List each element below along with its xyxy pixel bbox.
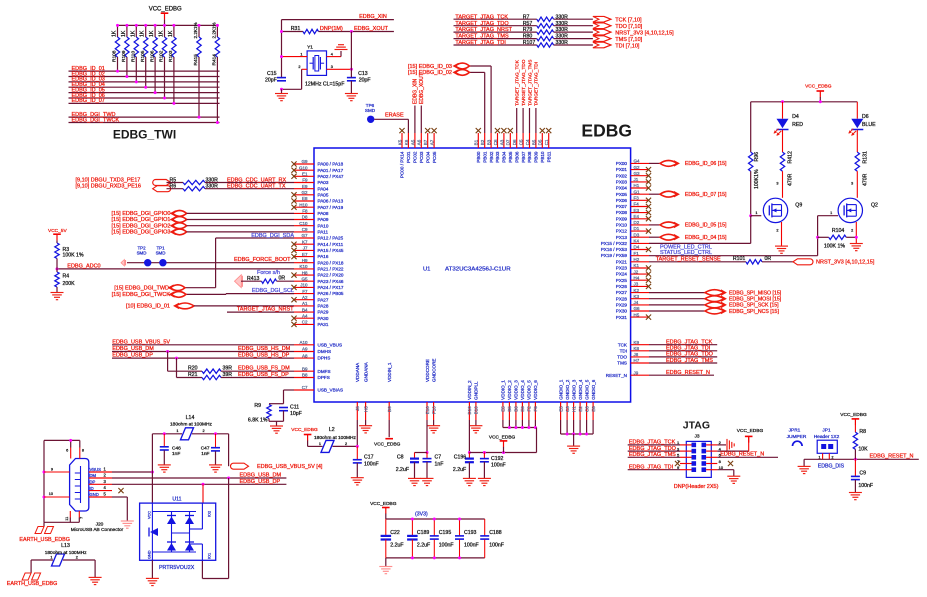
svg-text:PX02: PX02 — [616, 173, 628, 178]
svg-text:EDBG_JTAG_TMS: EDBG_JTAG_TMS — [629, 452, 676, 458]
svg-text:VDDIO_5: VDDIO_5 — [527, 380, 532, 400]
svg-text:0R: 0R — [765, 256, 772, 262]
svg-text:[10] EDBG_ID_01: [10] EDBG_ID_01 — [126, 304, 170, 310]
svg-text:TARGET_JTAG_TMS: TARGET_JTAG_TMS — [527, 60, 533, 106]
svg-text:EDBG_JTAG_TDO: EDBG_JTAG_TDO — [629, 446, 677, 452]
svg-text:NRST_3V3 [4,10,12,15]: NRST_3V3 [4,10,12,15] — [816, 260, 875, 266]
svg-text:C9: C9 — [302, 227, 308, 232]
svg-text:PX31: PX31 — [616, 315, 628, 320]
svg-text:H10: H10 — [299, 202, 308, 207]
svg-text:J8: J8 — [634, 352, 639, 357]
svg-text:PX10: PX10 — [616, 223, 628, 228]
svg-text:EDBG_ID_04 [15]: EDBG_ID_04 [15] — [685, 235, 727, 241]
svg-text:C189: C189 — [417, 530, 430, 536]
svg-text:USB_VBUS: USB_VBUS — [318, 342, 343, 347]
svg-text:E8: E8 — [302, 196, 308, 201]
svg-text:PX09: PX09 — [616, 216, 628, 221]
svg-text:VCC_EDBG: VCC_EDBG — [737, 428, 764, 434]
svg-text:A7: A7 — [430, 139, 435, 145]
svg-text:[15] EDBG_DGI_GPIO2: [15] EDBG_DGI_GPIO2 — [112, 223, 171, 229]
svg-text:PX13: PX13 — [616, 235, 628, 240]
svg-text:39R: 39R — [223, 366, 233, 372]
svg-text:TARGET_JTAG_TCK: TARGET_JTAG_TCK — [515, 59, 521, 106]
svg-text:1: 1 — [50, 555, 52, 559]
svg-text:330R: 330R — [556, 34, 569, 40]
svg-text:F9: F9 — [302, 178, 308, 183]
svg-text:B2: B2 — [480, 139, 485, 145]
svg-text:C9: C9 — [859, 470, 866, 476]
svg-text:F4: F4 — [634, 202, 640, 207]
svg-text:TP2: TP2 — [137, 245, 146, 250]
svg-text:DMHS: DMHS — [318, 349, 332, 354]
svg-text:EDBG_USB_VBUS_5V [4]: EDBG_USB_VBUS_5V [4] — [257, 464, 323, 470]
svg-text:JTAG: JTAG — [683, 419, 710, 431]
svg-text:K3: K3 — [634, 294, 640, 299]
svg-text:TP6: TP6 — [366, 103, 375, 108]
svg-text:E6: E6 — [591, 406, 596, 412]
svg-text:VCC_EDBG: VCC_EDBG — [840, 412, 867, 418]
svg-text:J1: J1 — [634, 177, 639, 182]
svg-text:PX29: PX29 — [616, 303, 628, 308]
svg-text:2.2K1%: 2.2K1% — [193, 22, 198, 38]
svg-text:12MHz CL=15pF: 12MHz CL=15pF — [305, 82, 344, 88]
svg-text:E5: E5 — [501, 406, 506, 412]
svg-text:180ohm at 100MHz: 180ohm at 100MHz — [314, 435, 356, 441]
svg-text:11: 11 — [65, 517, 69, 521]
svg-text:[15] EDBG_DGI_GPIO0: [15] EDBG_DGI_GPIO0 — [112, 211, 171, 217]
svg-text:PA27: PA27 — [318, 297, 329, 302]
svg-text:PA20 / PX18: PA20 / PX18 — [318, 260, 344, 265]
svg-text:B9: B9 — [302, 366, 308, 371]
svg-text:EDBG_XOUT: EDBG_XOUT — [354, 26, 389, 32]
svg-text:DPHS: DPHS — [318, 356, 331, 361]
svg-text:PC05: PC05 — [432, 151, 437, 163]
svg-text:VCC_5V: VCC_5V — [48, 228, 67, 234]
svg-text:B1: B1 — [474, 139, 479, 145]
svg-text:2.2uF: 2.2uF — [453, 467, 466, 473]
svg-text:R4: R4 — [63, 274, 70, 280]
svg-text:F2: F2 — [527, 406, 532, 412]
svg-text:GNDANA: GNDANA — [363, 361, 368, 382]
svg-text:EDBG: EDBG — [581, 121, 632, 141]
svg-text:0R: 0R — [279, 275, 286, 281]
svg-text:EDBG_XOUT: EDBG_XOUT — [419, 73, 425, 104]
svg-text:JPR1: JPR1 — [789, 428, 801, 434]
svg-text:K2: K2 — [634, 288, 640, 293]
svg-text:PA03: PA03 — [318, 180, 329, 185]
svg-text:G10: G10 — [299, 165, 308, 170]
svg-text:PX03: PX03 — [616, 180, 628, 185]
svg-text:20pF: 20pF — [359, 78, 371, 84]
svg-text:100K 1%: 100K 1% — [63, 253, 84, 259]
svg-text:R131: R131 — [862, 151, 868, 164]
svg-text:C5: C5 — [519, 139, 524, 145]
svg-text:C188: C188 — [489, 530, 502, 536]
svg-text:100nF: 100nF — [858, 483, 873, 489]
svg-text:J4: J4 — [634, 300, 639, 305]
svg-text:R96: R96 — [754, 152, 760, 162]
svg-text:PX15 / PX32: PX15 / PX32 — [601, 241, 628, 246]
svg-text:330R: 330R — [206, 184, 219, 190]
svg-text:1K: 1K — [149, 30, 155, 37]
svg-text:VCC_EDBG: VCC_EDBG — [489, 435, 516, 441]
svg-text:VDDIN_2: VDDIN_2 — [467, 380, 472, 400]
svg-text:GNDIO_3: GNDIO_3 — [571, 379, 576, 400]
svg-text:TMS [7,10]: TMS [7,10] — [615, 37, 642, 43]
svg-text:PA04: PA04 — [318, 186, 329, 191]
svg-text:EDBG_JTAG_TMS: EDBG_JTAG_TMS — [666, 358, 713, 364]
svg-text:PB07: PB07 — [521, 151, 526, 163]
svg-text:1K: 1K — [140, 30, 146, 37]
svg-text:EDBG_FORCE_BOOT: EDBG_FORCE_BOOT — [234, 257, 291, 263]
svg-text:R31: R31 — [291, 26, 301, 32]
svg-text:EARTH_USB_EDBG: EARTH_USB_EDBG — [19, 537, 70, 543]
svg-text:C10: C10 — [299, 221, 308, 226]
svg-text:TARGET_JTAG_TDI: TARGET_JTAG_TDI — [534, 62, 540, 106]
svg-text:VDDCORE: VDDCORE — [425, 359, 430, 382]
svg-text:H8: H8 — [302, 270, 308, 275]
svg-text:VDDANA: VDDANA — [355, 362, 360, 382]
svg-text:1nF: 1nF — [201, 451, 209, 457]
svg-text:TCK [7,10]: TCK [7,10] — [615, 18, 642, 24]
svg-text:2.2uF: 2.2uF — [390, 543, 403, 549]
svg-text:GNDIO_4: GNDIO_4 — [578, 379, 583, 400]
svg-text:SMD: SMD — [156, 251, 166, 256]
svg-text:TCK: TCK — [618, 342, 628, 347]
svg-text:PX25: PX25 — [616, 278, 628, 283]
svg-text:G5: G5 — [301, 276, 308, 281]
svg-text:10: 10 — [49, 492, 53, 496]
svg-text:C11: C11 — [290, 405, 299, 411]
svg-text:G7: G7 — [301, 233, 308, 238]
svg-text:PA15 / PX45: PA15 / PX45 — [318, 248, 344, 253]
svg-text:D4: D4 — [792, 114, 799, 120]
svg-text:F10: F10 — [431, 406, 436, 414]
svg-text:100K 1%: 100K 1% — [824, 244, 845, 250]
svg-text:G9: G9 — [301, 159, 308, 164]
svg-text:GNDIO_5: GNDIO_5 — [584, 379, 589, 400]
svg-text:20pF: 20pF — [265, 78, 277, 84]
svg-text:R106: R106 — [149, 50, 155, 62]
svg-text:A1: A1 — [302, 301, 308, 306]
svg-text:C195: C195 — [439, 530, 452, 536]
svg-text:[15] EDBG_ID_02: [15] EDBG_ID_02 — [408, 70, 452, 76]
svg-text:3: 3 — [331, 65, 333, 69]
svg-text:EDBG_CDC_UART_TX: EDBG_CDC_UART_TX — [227, 184, 286, 190]
svg-text:R5: R5 — [170, 177, 177, 183]
svg-text:PB01: PB01 — [482, 151, 487, 163]
svg-text:PA24 / PX17: PA24 / PX17 — [318, 285, 344, 290]
svg-text:J9: J9 — [634, 370, 639, 375]
svg-text:EDBG_USB_FS_DP: EDBG_USB_FS_DP — [238, 372, 289, 378]
svg-text:PA23 / PX46: PA23 / PX46 — [318, 279, 344, 284]
svg-text:JUMPER: JUMPER — [787, 434, 807, 440]
svg-text:PA08: PA08 — [318, 211, 329, 216]
svg-text:RED: RED — [792, 122, 803, 128]
svg-text:E2: E2 — [578, 406, 583, 412]
svg-text:L14: L14 — [186, 415, 195, 421]
svg-text:B5: B5 — [531, 139, 536, 145]
svg-text:E7: E7 — [302, 252, 308, 257]
svg-text:PX00: PX00 — [616, 161, 628, 166]
svg-text:PB05: PB05 — [508, 151, 513, 163]
svg-text:PB10: PB10 — [540, 151, 545, 163]
svg-text:R9: R9 — [254, 403, 261, 409]
svg-text:A8: A8 — [302, 353, 308, 358]
svg-text:J3: J3 — [695, 434, 700, 440]
svg-text:G3: G3 — [634, 171, 641, 176]
svg-text:C47: C47 — [201, 445, 210, 451]
svg-text:180ohm at 100MHz: 180ohm at 100MHz — [170, 422, 212, 428]
svg-text:R412: R412 — [788, 151, 794, 164]
svg-text:TARGET_JTAG_TCK: TARGET_JTAG_TCK — [455, 14, 508, 20]
svg-text:330R: 330R — [556, 27, 569, 33]
svg-text:VCC_EDBG: VCC_EDBG — [370, 501, 397, 507]
svg-text:2.2K1%: 2.2K1% — [211, 22, 216, 38]
svg-text:PX07: PX07 — [616, 204, 628, 209]
svg-text:D10: D10 — [467, 406, 472, 415]
svg-text:ERASE: ERASE — [385, 113, 404, 119]
svg-text:1K: 1K — [159, 30, 165, 37]
svg-text:C196: C196 — [454, 454, 467, 460]
svg-text:470R: 470R — [862, 173, 868, 186]
svg-text:G4: G4 — [634, 159, 641, 164]
svg-text:F7: F7 — [302, 289, 308, 294]
svg-text:E4: E4 — [634, 214, 640, 219]
svg-text:PA09: PA09 — [318, 217, 329, 222]
svg-text:IO1: IO1 — [208, 553, 212, 559]
svg-text:SMD: SMD — [137, 251, 147, 256]
svg-text:PX19 / PX59: PX19 / PX59 — [601, 253, 628, 258]
svg-text:10pF: 10pF — [290, 411, 302, 417]
svg-text:EDBG_ID_07: EDBG_ID_07 — [72, 98, 105, 104]
svg-text:PA06 / PA13: PA06 / PA13 — [318, 199, 344, 204]
svg-text:R8: R8 — [859, 429, 866, 435]
svg-text:C15: C15 — [267, 71, 277, 77]
svg-text:2: 2 — [345, 442, 347, 446]
svg-text:VCC_EDBG: VCC_EDBG — [149, 6, 182, 12]
svg-text:TDO: TDO — [617, 355, 627, 360]
svg-text:4: 4 — [331, 53, 333, 57]
svg-text:1: 1 — [319, 442, 321, 446]
svg-text:PX06: PX06 — [616, 198, 628, 203]
svg-text:100nF: 100nF — [489, 543, 504, 549]
svg-text:VDDIO_1: VDDIO_1 — [501, 380, 506, 400]
svg-text:A3: A3 — [499, 139, 504, 145]
svg-text:B8: B8 — [302, 373, 308, 378]
svg-text:VDDIO_4: VDDIO_4 — [520, 380, 525, 400]
svg-text:10K: 10K — [858, 446, 868, 452]
svg-text:PX28: PX28 — [616, 296, 628, 301]
svg-text:[15] EDBG_DGI_TWCK: [15] EDBG_DGI_TWCK — [112, 292, 171, 298]
svg-text:STATUS_LED_CTRL: STATUS_LED_CTRL — [660, 250, 712, 256]
svg-text:TDI [7,10]: TDI [7,10] — [615, 43, 640, 49]
svg-text:IO2: IO2 — [208, 511, 212, 517]
svg-text:A6: A6 — [417, 139, 422, 145]
svg-text:8: 8 — [82, 449, 84, 453]
svg-text:PX21: PX21 — [616, 259, 628, 264]
svg-text:E1: E1 — [302, 172, 308, 177]
svg-text:2: 2 — [203, 429, 205, 433]
svg-text:F1: F1 — [634, 251, 640, 256]
svg-text:GND: GND — [148, 550, 152, 559]
svg-text:330R: 330R — [556, 40, 569, 46]
svg-text:R107: R107 — [523, 40, 536, 46]
svg-text:R21: R21 — [188, 372, 198, 378]
svg-text:100nF: 100nF — [364, 461, 379, 467]
svg-text:2.2uF: 2.2uF — [417, 543, 430, 549]
svg-text:TARGET_JTAG_TDO: TARGET_JTAG_TDO — [521, 59, 527, 106]
svg-text:PB03: PB03 — [495, 151, 500, 163]
svg-text:(3V3): (3V3) — [415, 511, 428, 517]
svg-text:E10: E10 — [425, 406, 430, 415]
svg-text:VCC: VCC — [148, 511, 152, 519]
svg-text:TARGET_JTAG_TMS: TARGET_JTAG_TMS — [455, 34, 509, 40]
svg-text:C46: C46 — [172, 445, 181, 451]
svg-text:K1: K1 — [634, 263, 640, 268]
svg-text:PB02: PB02 — [489, 151, 494, 163]
svg-text:EDBG_JTAG_TCK: EDBG_JTAG_TCK — [666, 340, 713, 346]
svg-text:EDBG_JTAG_TDI: EDBG_JTAG_TDI — [666, 346, 711, 352]
svg-text:VCC_EDBG: VCC_EDBG — [374, 442, 401, 448]
svg-text:R79: R79 — [523, 27, 533, 33]
svg-text:[15] EDBG_DGI_GPIO1: [15] EDBG_DGI_GPIO1 — [112, 217, 171, 223]
svg-text:1: 1 — [755, 211, 757, 215]
svg-text:PX12: PX12 — [616, 229, 628, 234]
svg-text:J10: J10 — [300, 283, 308, 288]
svg-text:PRTR5VOU2X: PRTR5VOU2X — [159, 565, 195, 571]
svg-text:2: 2 — [851, 229, 853, 233]
svg-text:R101: R101 — [733, 256, 746, 262]
svg-text:DNP(Header 2X5): DNP(Header 2X5) — [674, 484, 719, 490]
svg-text:EDBG_USB_HS_DP: EDBG_USB_HS_DP — [238, 353, 290, 359]
svg-text:PA10: PA10 — [318, 223, 329, 228]
svg-text:F3: F3 — [634, 196, 640, 201]
svg-text:C8: C8 — [584, 406, 589, 412]
svg-text:H5: H5 — [634, 312, 640, 317]
svg-text:EDBG_JTAG_TDI: EDBG_JTAG_TDI — [629, 464, 674, 470]
svg-text:C22: C22 — [390, 530, 400, 536]
svg-text:D6: D6 — [512, 139, 517, 145]
svg-text:G2: G2 — [301, 190, 308, 195]
svg-text:R102: R102 — [159, 50, 165, 62]
svg-text:470R: 470R — [788, 173, 794, 186]
svg-text:R109: R109 — [121, 50, 127, 62]
svg-text:1nF: 1nF — [172, 451, 180, 457]
svg-text:J3: J3 — [634, 282, 639, 287]
svg-text:GNDIO_1: GNDIO_1 — [558, 379, 563, 400]
svg-text:VDDIO_3: VDDIO_3 — [514, 380, 519, 400]
svg-text:D6: D6 — [862, 114, 869, 120]
svg-text:ID: ID — [90, 486, 94, 491]
svg-text:3: 3 — [851, 182, 853, 186]
svg-text:[15] EDBG_DGI_TWD: [15] EDBG_DGI_TWD — [114, 286, 169, 292]
svg-text:2: 2 — [298, 65, 300, 69]
svg-text:6: 6 — [66, 449, 68, 453]
svg-text:H5: H5 — [363, 406, 368, 412]
svg-text:GND: GND — [90, 492, 99, 497]
svg-text:EDBG_DGI_SCL: EDBG_DGI_SCL — [252, 288, 294, 294]
svg-text:B7: B7 — [423, 139, 428, 145]
svg-text:PB06: PB06 — [514, 151, 519, 163]
svg-text:D9: D9 — [387, 406, 392, 412]
svg-text:PX24: PX24 — [616, 272, 628, 277]
svg-text:100nF: 100nF — [464, 543, 479, 549]
svg-text:H7: H7 — [634, 358, 640, 363]
svg-text:B5: B5 — [507, 406, 512, 412]
svg-text:1K: 1K — [130, 30, 136, 37]
svg-text:[15] EDBG_DGI_GPIO3: [15] EDBG_DGI_GPIO3 — [112, 230, 171, 236]
svg-text:EDBG_SPI_SCK [15]: EDBG_SPI_SCK [15] — [729, 303, 779, 309]
svg-text:TARGET_JTAG_TDI: TARGET_JTAG_TDI — [455, 40, 506, 46]
svg-text:D8: D8 — [302, 215, 308, 220]
svg-text:EDBG_RESET_N: EDBG_RESET_N — [870, 453, 914, 459]
svg-text:1: 1 — [830, 211, 832, 215]
svg-text:Header 1X2: Header 1X2 — [814, 434, 840, 440]
svg-text:J20: J20 — [96, 521, 104, 527]
svg-text:R20: R20 — [188, 366, 198, 372]
svg-text:AT32UC3A4256J-C1UR: AT32UC3A4256J-C1UR — [445, 267, 511, 273]
svg-text:EDBG_ADC0: EDBG_ADC0 — [67, 263, 100, 269]
svg-text:R104: R104 — [832, 228, 845, 234]
svg-text:D1: D1 — [634, 226, 640, 231]
svg-text:330R: 330R — [206, 177, 219, 183]
svg-text:[9,10] DBGU_RXD3_PE16: [9,10] DBGU_RXD3_PE16 — [76, 184, 141, 190]
svg-text:R103: R103 — [168, 50, 174, 62]
svg-text:EDBG_USB_DM: EDBG_USB_DM — [112, 346, 154, 352]
svg-text:SMD: SMD — [365, 108, 376, 113]
svg-text:TMS: TMS — [617, 361, 627, 366]
svg-text:PB09: PB09 — [534, 151, 539, 163]
svg-text:TARGET_JTAG_NRST: TARGET_JTAG_NRST — [455, 27, 512, 33]
svg-text:G1: G1 — [634, 189, 641, 194]
svg-text:U11: U11 — [172, 497, 181, 503]
svg-text:PX26: PX26 — [616, 284, 628, 289]
svg-text:A2: A2 — [302, 295, 308, 300]
svg-text:C17: C17 — [364, 454, 374, 460]
svg-text:[15] EDBG_ID_03: [15] EDBG_ID_03 — [408, 64, 452, 70]
svg-text:PA02 / PX47: PA02 / PX47 — [318, 174, 344, 179]
svg-text:B4: B4 — [302, 307, 308, 312]
svg-text:EDBG_CDC_UART_RX: EDBG_CDC_UART_RX — [227, 178, 287, 184]
svg-text:PA29: PA29 — [318, 310, 329, 315]
svg-text:[9,10] DBGU_TXD3_PE17: [9,10] DBGU_TXD3_PE17 — [76, 178, 141, 184]
svg-text:200K: 200K — [63, 281, 76, 287]
svg-text:E9: E9 — [302, 184, 308, 189]
svg-text:R6: R6 — [170, 184, 177, 190]
svg-text:DMFS: DMFS — [318, 369, 331, 374]
svg-text:B3: B3 — [487, 139, 492, 145]
svg-text:H1: H1 — [571, 406, 576, 412]
svg-text:PA22 / PX20: PA22 / PX20 — [318, 273, 344, 278]
svg-text:EDBG_ID_06 [15]: EDBG_ID_06 [15] — [685, 161, 727, 167]
svg-text:D2: D2 — [634, 220, 640, 225]
svg-text:PC02: PC02 — [413, 151, 418, 163]
svg-text:PX05: PX05 — [616, 192, 628, 197]
svg-text:DM: DM — [90, 473, 97, 478]
svg-text:GNDCORE: GNDCORE — [431, 359, 436, 382]
svg-text:A4: A4 — [302, 313, 308, 318]
svg-text:EDBG_USB_DP: EDBG_USB_DP — [112, 353, 153, 359]
svg-text:VDDIN_1: VDDIN_1 — [387, 362, 392, 382]
svg-text:PB04: PB04 — [502, 151, 507, 163]
svg-text:TP1: TP1 — [156, 245, 165, 250]
svg-text:K10: K10 — [299, 264, 308, 269]
svg-text:EDBG_RESET_N: EDBG_RESET_N — [720, 452, 764, 458]
svg-text:1nF: 1nF — [435, 461, 444, 467]
svg-text:GNDIO_2: GNDIO_2 — [565, 379, 570, 400]
svg-text:1: 1 — [176, 429, 178, 433]
